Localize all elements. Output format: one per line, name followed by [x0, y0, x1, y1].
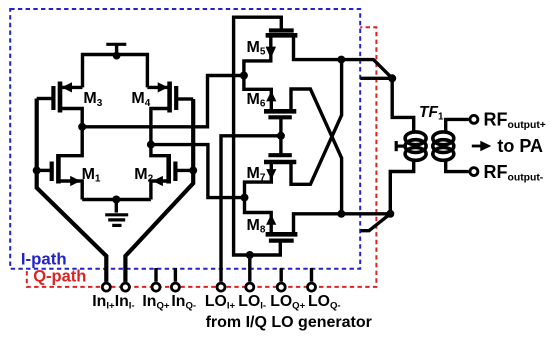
node bottom output junction — [337, 210, 345, 218]
wire M5 drain / top output line — [294, 37, 393, 79]
wire Q-path mixer output stub top — [360, 77, 392, 80]
wire source rail M1/M2 — [82, 198, 151, 201]
wire input line + (M3,M1 gates to In_I+) — [37, 99, 107, 282]
transistor M7 — [268, 153, 291, 157]
node LO_I- to M5/M8 gate rail — [246, 251, 254, 259]
wire LO_Q+ stub — [280, 268, 283, 282]
wire M6 drain cross-couple to bottom output — [291, 89, 342, 214]
node top output junction — [337, 56, 345, 64]
node transformer primary top — [388, 74, 396, 82]
Q-path dashed box — [27, 27, 377, 287]
transistor M8 — [245, 198, 272, 234]
VDD supply symbol — [106, 43, 126, 46]
node: M4/M2 drains — [147, 141, 155, 149]
terminal RF output+ — [470, 115, 478, 123]
wire primary bottom lead — [390, 160, 413, 214]
wire LO_Q- stub — [310, 268, 313, 282]
terminal pin In_Q- — [171, 283, 179, 291]
node M7/M8 sources — [241, 194, 249, 202]
I-path dashed box — [10, 9, 360, 269]
terminal pin In_I- — [121, 283, 129, 291]
svg-text:Q-path: Q-path — [33, 268, 86, 286]
svg-text:from I/Q LO generator: from I/Q LO generator — [206, 314, 372, 331]
wire M7 drain cross-couple to top output — [291, 60, 342, 185]
terminal pin LO_I- — [246, 283, 254, 291]
terminal pin In_Q+ — [152, 283, 160, 291]
wire output1 to mixer top source node — [82, 76, 244, 127]
wire primary top lead — [392, 78, 414, 132]
node M5/M6 sources — [240, 72, 248, 80]
transistor M5 — [269, 28, 294, 32]
terminal RF output- — [470, 168, 478, 176]
wire LO_I+ pin riser to M6/M7 gates — [221, 136, 281, 282]
wire LO_I- feed: top rail to M5 gate, bottom rail to M8 gate — [234, 17, 282, 255]
terminal pin LO_I+ — [217, 283, 225, 291]
node source rail — [112, 196, 120, 204]
terminal pin In_I+ — [102, 283, 110, 291]
wire output2 to mixer bottom source node — [151, 145, 245, 198]
node M6/M7 gates — [277, 132, 285, 140]
arrow to PA — [472, 145, 481, 148]
wire In_Q+ stub — [154, 268, 157, 282]
terminal pin LO_Q+ — [277, 283, 285, 291]
wire Q-path mixer output stub bottom — [361, 214, 391, 231]
primary center tap — [395, 141, 398, 151]
transistor M3 — [60, 86, 83, 89]
svg-text:to PA: to PA — [497, 136, 543, 156]
wire VDD rail — [83, 55, 148, 88]
node: M3/M1 drains — [78, 123, 86, 131]
transformer TF1 primary coil — [405, 132, 426, 145]
ground — [115, 200, 118, 213]
node VDD rail — [113, 52, 121, 60]
transistor M1 — [37, 169, 50, 172]
node: M2 gate junction — [189, 166, 197, 174]
node: M1 gate junction — [33, 166, 41, 174]
wire In_Q- stub — [174, 268, 177, 282]
svg-text:I-path: I-path — [21, 249, 67, 268]
wire secondary top lead — [446, 119, 469, 132]
wire M8 drain / bottom output line — [294, 214, 391, 235]
wire input line - (M4,M2 gates to In_I-) — [125, 99, 193, 282]
node transformer primary bottom — [386, 210, 394, 218]
transistor M6 — [244, 76, 271, 112]
transistor M2 — [177, 169, 193, 172]
transformer TF1 secondary coil — [433, 132, 454, 145]
terminal pin LO_Q- — [308, 283, 316, 291]
wire secondary bottom lead — [446, 160, 469, 172]
transistor M4 — [147, 86, 169, 89]
